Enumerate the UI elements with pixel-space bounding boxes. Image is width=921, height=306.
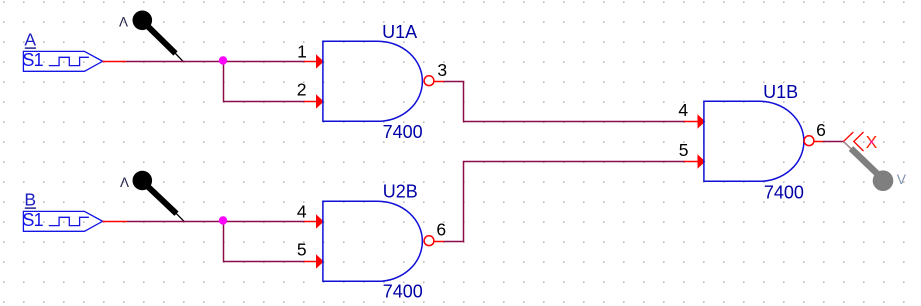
svg-text:Λ: Λ [120, 175, 129, 190]
pin 5 arrow U2B [316, 255, 323, 268]
svg-text:S1: S1 [22, 50, 43, 70]
svg-text:U1B: U1B [763, 82, 798, 102]
pin 4 stub U1B (red) [684, 121, 699, 123]
NAND gate U2B body [323, 201, 422, 281]
svg-text:7400: 7400 [383, 122, 423, 142]
svg-text:7400: 7400 [764, 182, 804, 202]
svg-text:U2B: U2B [383, 182, 418, 202]
NAND gate U1A body [323, 41, 423, 121]
probe (B) [133, 171, 185, 222]
pin 6 stub U1B (red) [814, 141, 823, 143]
svg-text:X: X [866, 132, 878, 152]
NAND gate U1B body [704, 101, 804, 181]
pin 5 arrow U1B [698, 155, 705, 168]
pin stub source B (red) [103, 221, 127, 223]
label B [24, 189, 36, 209]
svg-text:7400: 7400 [383, 282, 423, 302]
net connector chevrons at X [844, 132, 864, 151]
wire net X [823, 141, 844, 143]
svg-text:Λ: Λ [119, 15, 128, 30]
pin 4 stub U2B (red) [304, 221, 318, 223]
probe (A) [133, 10, 184, 61]
wire net B horizontal [127, 221, 305, 223]
label A [24, 29, 36, 49]
wire net B branch down [224, 222, 305, 262]
pin stub source A (red) [103, 61, 126, 63]
svg-text:3: 3 [437, 60, 447, 80]
gate U1B inversion bubble [804, 136, 814, 146]
pin 1 stub U1A (red) [304, 61, 318, 63]
source S1 (B) square-wave generator [22, 210, 102, 231]
svg-text:5: 5 [679, 140, 689, 160]
junction node B [219, 216, 227, 224]
pin 3 stub U1A (red) [434, 81, 444, 83]
svg-text:6: 6 [436, 220, 446, 240]
probe (V, grey) [844, 142, 894, 192]
svg-text:A: A [24, 29, 36, 49]
svg-text:V: V [897, 172, 907, 187]
svg-text:6: 6 [816, 120, 826, 140]
pin 6 stub U2B (red) [434, 241, 444, 243]
svg-text:4: 4 [678, 100, 688, 120]
wire net A horizontal [126, 61, 305, 63]
svg-text:B: B [24, 189, 36, 209]
svg-text:2: 2 [297, 80, 307, 100]
pin 5 stub U1B (red) [684, 161, 699, 163]
svg-text:1: 1 [297, 41, 307, 61]
svg-text:4: 4 [297, 201, 307, 221]
junction node A [219, 56, 227, 64]
svg-text:U1A: U1A [382, 22, 417, 42]
wire U2B out to U1B pin 5 [444, 162, 685, 242]
source S1 (A) square-wave generator [22, 50, 102, 71]
pin 4 arrow U1B [698, 115, 705, 128]
wire net A branch down [224, 62, 305, 102]
svg-text:S1: S1 [22, 210, 43, 230]
gate U1A inversion bubble [424, 76, 434, 86]
pin 1 arrow U1A [316, 55, 323, 68]
gate U2B inversion bubble [424, 236, 434, 246]
pin 2 arrow U1A [316, 95, 323, 108]
pin 2 stub U1A (red) [304, 101, 318, 103]
svg-text:5: 5 [297, 240, 307, 260]
wire U1A out to U1B pin 4 [444, 82, 685, 122]
pin 5 stub U2B (red) [304, 261, 318, 263]
pin 4 arrow U2B [316, 215, 323, 228]
